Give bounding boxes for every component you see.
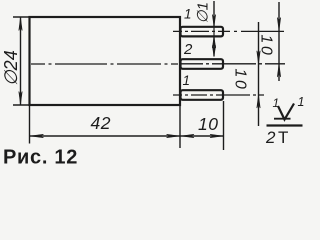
pin 2 (middle contact pin) [181, 59, 224, 69]
svg-text:1: 1 [184, 7, 192, 22]
main centerline (axis, dash-dot) [31, 63, 178, 65]
dia1 arrow down onto pin1 top [212, 15, 215, 27]
svg-text:1: 1 [298, 95, 305, 109]
dia24 arrow down [19, 92, 22, 105]
dia1 lower tail with up arrow [213, 37, 215, 57]
dim B arrow up onto pin3 axis [257, 95, 260, 108]
dia24 extension line bottom [13, 104, 30, 106]
fraction bar [267, 124, 303, 126]
42 arrow right [167, 134, 180, 137]
svg-text:1: 1 [183, 73, 191, 88]
42 arrow left [30, 134, 44, 137]
bottom dimension line (42 and 10) [30, 135, 224, 137]
short bar under check mark [274, 118, 291, 120]
dia1 arrow up onto pin1 bottom [212, 37, 215, 49]
extension line below pin tips [223, 101, 225, 150]
part body outline (cylinder side view 42x Ø24) [30, 17, 181, 105]
svg-text:Т: Т [278, 128, 288, 147]
svg-text:42: 42 [91, 113, 111, 133]
right dim B line upper tail (pin2 to pin3 = 10) [258, 22, 260, 126]
pin 1 (top contact pin) [181, 27, 224, 37]
10 arrow right [210, 134, 223, 137]
dim A arrow down onto pin1 axis [277, 18, 280, 31]
extension line below left body edge [29, 106, 31, 144]
10 arrow left [181, 134, 194, 137]
svg-text:2: 2 [265, 128, 276, 147]
pin 3 (bottom contact pin) [181, 90, 224, 100]
pin 3 centerline extension [173, 94, 264, 96]
dia24 dimension line [20, 18, 22, 105]
svg-text:2: 2 [183, 41, 193, 58]
dia24 extension line top [13, 16, 30, 18]
dia24 arrow up [19, 18, 22, 31]
extension line below right body edge [179, 106, 181, 148]
dia1 dimension line upper [213, 1, 215, 26]
surface finish check mark V [278, 104, 294, 120]
svg-text:Рис. 12: Рис. 12 [3, 147, 78, 168]
svg-text:∅1: ∅1 [195, 2, 212, 23]
svg-text:10: 10 [258, 35, 275, 58]
pin 2 centerline extension [181, 63, 286, 65]
dim B arrow down onto pin2 axis [257, 51, 260, 64]
right dim A line upper tail (pin1 to pin2 = 10) [278, 2, 280, 81]
svg-text:10: 10 [198, 114, 218, 134]
arrow down onto pin2 top [212, 46, 215, 57]
dia1 line across pin1 [213, 27, 215, 38]
pin 1 centerline extension [173, 30, 284, 32]
svg-text:∅24: ∅24 [1, 50, 21, 86]
dim A arrow up onto pin2 axis [277, 64, 280, 77]
svg-text:10: 10 [232, 69, 249, 92]
